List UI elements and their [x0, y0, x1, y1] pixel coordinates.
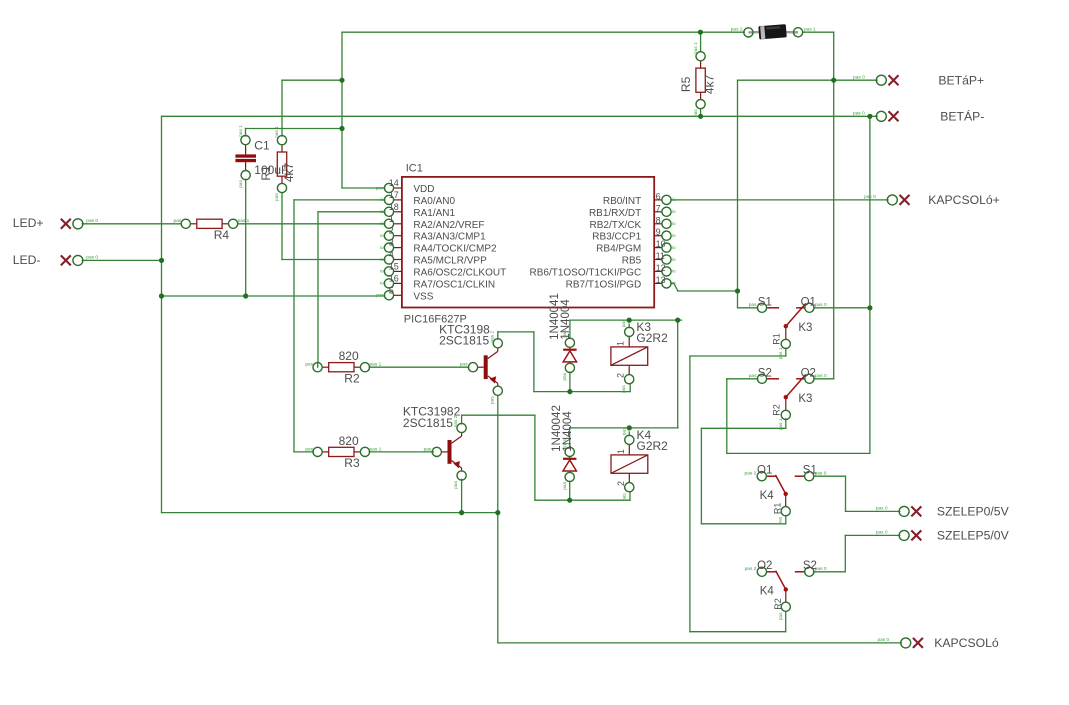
svg-text:pas: pas	[563, 481, 568, 489]
svg-text:4k7: 4k7	[702, 74, 716, 94]
svg-text:pas 2: pas 2	[489, 331, 495, 343]
svg-text:pas 0: pas 0	[86, 255, 98, 261]
svg-text:io: io	[672, 257, 676, 263]
svg-text:RA1/AN1: RA1/AN1	[413, 208, 455, 219]
svg-text:VDD: VDD	[413, 184, 434, 195]
svg-text:io: io	[672, 209, 676, 215]
svg-text:io: io	[672, 269, 676, 275]
svg-text:io: io	[672, 221, 676, 227]
svg-text:pwr: pwr	[376, 293, 384, 299]
svg-text:4: 4	[389, 250, 394, 260]
svg-text:pas: pas	[305, 363, 313, 368]
svg-text:9: 9	[656, 227, 661, 237]
svg-text:1: 1	[389, 214, 394, 224]
svg-text:O1: O1	[757, 465, 772, 477]
svg-text:LED-: LED-	[13, 253, 41, 267]
svg-text:pas 0: pas 0	[876, 530, 888, 536]
svg-text:820: 820	[339, 434, 359, 448]
svg-text:io: io	[672, 281, 676, 287]
svg-text:pas 0: pas 0	[86, 218, 98, 224]
svg-text:1: 1	[616, 449, 626, 454]
svg-text:R2: R2	[772, 404, 782, 416]
svg-text:pas: pas	[694, 109, 699, 117]
svg-text:RA3/AN3/CMP1: RA3/AN3/CMP1	[413, 232, 486, 243]
svg-text:K3: K3	[798, 322, 812, 334]
svg-text:C1: C1	[254, 138, 270, 152]
svg-text:pas: pas	[749, 374, 757, 379]
svg-text:R5: R5	[679, 76, 693, 92]
svg-text:pas 1: pas 1	[238, 218, 250, 224]
svg-text:pas: pas	[622, 385, 627, 393]
svg-text:pas: pas	[275, 193, 280, 201]
svg-text:G2R2: G2R2	[636, 331, 668, 345]
svg-text:15: 15	[389, 261, 399, 271]
svg-text:13: 13	[656, 275, 666, 285]
svg-text:pwr: pwr	[376, 185, 384, 191]
svg-text:io: io	[672, 197, 676, 203]
svg-text:pas: pas	[563, 438, 568, 446]
svg-text:2SC1815: 2SC1815	[439, 334, 489, 348]
svg-text:pas 1: pas 1	[804, 27, 816, 33]
svg-text:pas: pas	[305, 447, 313, 452]
svg-text:BETáP+: BETáP+	[938, 74, 984, 88]
svg-text:2SC1815: 2SC1815	[403, 416, 453, 430]
svg-text:RB2/TX/CK: RB2/TX/CK	[590, 220, 642, 231]
svg-text:pas: pas	[622, 493, 627, 501]
svg-text:pas 0: pas 0	[815, 302, 827, 308]
svg-text:S1: S1	[758, 296, 772, 308]
svg-text:RB3/CCP1: RB3/CCP1	[592, 232, 641, 243]
svg-text:pas 0: pas 0	[815, 471, 827, 477]
svg-text:RB6/T1OSO/T1CKI/PGC: RB6/T1OSO/T1CKI/PGC	[529, 267, 641, 278]
svg-text:io: io	[672, 233, 676, 239]
svg-text:PIC16F627P: PIC16F627P	[404, 314, 467, 326]
svg-text:pas 1: pas 1	[693, 42, 699, 54]
svg-text:LED+: LED+	[13, 216, 44, 230]
svg-text:pas 0: pas 0	[877, 637, 889, 643]
svg-text:8: 8	[656, 215, 661, 225]
svg-text:O2: O2	[757, 560, 772, 572]
svg-text:G2R2: G2R2	[637, 439, 669, 453]
svg-text:pas 2: pas 2	[745, 471, 757, 477]
svg-text:pas 2: pas 2	[453, 415, 459, 427]
svg-text:S2: S2	[758, 367, 772, 379]
svg-text:3: 3	[389, 238, 394, 248]
svg-text:14: 14	[389, 178, 399, 188]
svg-text:2: 2	[389, 226, 394, 236]
svg-text:pas 0: pas 0	[853, 111, 865, 117]
svg-text:R1: R1	[259, 165, 273, 181]
svg-text:R1: R1	[772, 333, 782, 345]
svg-text:pas: pas	[490, 396, 495, 404]
svg-text:pas 1: pas 1	[778, 418, 784, 430]
svg-text:VSS: VSS	[413, 291, 433, 302]
svg-text:pas: pas	[424, 447, 432, 452]
svg-text:pas: pas	[779, 612, 784, 620]
svg-text:pas 0: pas 0	[864, 194, 876, 200]
svg-text:pas: pas	[460, 363, 468, 368]
svg-text:io: io	[380, 233, 384, 239]
svg-text:O2: O2	[801, 367, 816, 379]
svg-text:BETÁP-: BETÁP-	[940, 109, 984, 124]
svg-text:K3: K3	[798, 393, 812, 405]
svg-text:KAPCSOLó: KAPCSOLó	[934, 636, 999, 650]
svg-text:RA5/MCLR/VPP: RA5/MCLR/VPP	[413, 256, 487, 267]
svg-text:pas 0: pas 0	[876, 506, 888, 512]
svg-text:11: 11	[656, 251, 665, 261]
svg-text:pas 0: pas 0	[815, 373, 827, 379]
svg-text:RB0/INT: RB0/INT	[603, 196, 641, 207]
svg-text:RA7/OSC1/CLKIN: RA7/OSC1/CLKIN	[413, 279, 495, 290]
svg-text:pas 1: pas 1	[778, 347, 784, 359]
svg-text:pas 0: pas 0	[815, 566, 827, 572]
svg-text:R2: R2	[773, 598, 783, 610]
svg-text:820: 820	[339, 349, 359, 363]
svg-text:R1: R1	[773, 503, 783, 515]
svg-text:pas 2: pas 2	[731, 27, 743, 33]
svg-text:12: 12	[656, 263, 666, 273]
svg-text:1: 1	[616, 341, 626, 346]
svg-text:R3: R3	[344, 456, 360, 470]
svg-text:pas: pas	[622, 319, 627, 327]
svg-text:RB1/RX/DT: RB1/RX/DT	[589, 208, 641, 219]
svg-text:2: 2	[616, 481, 626, 486]
svg-text:pas: pas	[454, 480, 459, 488]
svg-text:pas 1: pas 1	[238, 125, 244, 137]
svg-text:SZELEP0/5V: SZELEP0/5V	[937, 505, 1010, 519]
svg-text:RA4/TOCKI/CMP2: RA4/TOCKI/CMP2	[413, 244, 497, 255]
svg-text:2: 2	[616, 373, 626, 378]
svg-text:pas 2: pas 2	[745, 566, 757, 572]
svg-text:io: io	[380, 209, 384, 215]
svg-text:RA6/OSC2/CLKOUT: RA6/OSC2/CLKOUT	[413, 267, 506, 278]
svg-text:RB7/T1OSI/PGD: RB7/T1OSI/PGD	[566, 279, 642, 290]
svg-text:pas: pas	[622, 427, 627, 435]
svg-text:RA0/AN0: RA0/AN0	[413, 196, 455, 207]
svg-text:io: io	[380, 197, 384, 203]
svg-text:pas 1: pas 1	[370, 362, 382, 368]
svg-text:RB4/PGM: RB4/PGM	[596, 244, 641, 255]
svg-text:io: io	[672, 245, 676, 251]
svg-text:R4: R4	[214, 228, 230, 242]
svg-text:5: 5	[389, 285, 394, 295]
svg-text:pas 1: pas 1	[274, 126, 280, 138]
svg-text:6: 6	[656, 191, 661, 201]
svg-text:4k7: 4k7	[282, 163, 296, 183]
svg-text:16: 16	[389, 273, 399, 283]
svg-text:RA2/AN2/VREF: RA2/AN2/VREF	[413, 220, 484, 231]
svg-text:pas 1: pas 1	[370, 446, 382, 452]
svg-text:io: io	[380, 245, 384, 251]
svg-text:RB5: RB5	[622, 256, 642, 267]
svg-text:SZELEP5/0V: SZELEP5/0V	[937, 529, 1010, 543]
svg-text:io: io	[380, 221, 384, 227]
svg-text:O1: O1	[801, 296, 816, 308]
svg-text:K4: K4	[760, 490, 775, 502]
svg-text:pas: pas	[563, 372, 568, 380]
svg-text:pas: pas	[563, 329, 568, 337]
svg-text:18: 18	[389, 202, 399, 212]
svg-text:10: 10	[656, 239, 666, 249]
svg-text:7: 7	[656, 203, 661, 213]
svg-text:pas: pas	[779, 516, 784, 524]
svg-text:io: io	[380, 257, 384, 263]
svg-text:pas 0: pas 0	[853, 74, 865, 80]
svg-text:K4: K4	[760, 585, 775, 597]
svg-text:pas: pas	[239, 180, 244, 188]
svg-text:KAPCSOLó+: KAPCSOLó+	[928, 193, 999, 207]
svg-text:io: io	[380, 269, 384, 275]
svg-text:R2: R2	[344, 371, 360, 385]
svg-text:pas: pas	[749, 303, 757, 308]
svg-text:IC1: IC1	[406, 163, 423, 175]
svg-text:pas: pas	[173, 219, 181, 224]
svg-text:io: io	[380, 281, 384, 287]
svg-text:17: 17	[389, 190, 399, 200]
